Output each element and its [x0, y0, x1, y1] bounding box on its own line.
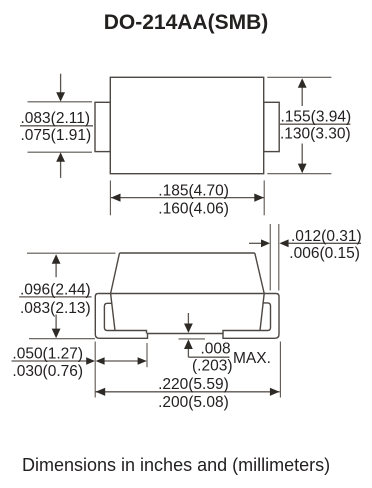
arrowhead left .185 — [111, 194, 121, 202]
svg-text:.030(0.76): .030(0.76) — [12, 363, 83, 380]
lead outer outline left and bottom with center notch — [95, 294, 149, 339]
leader line .050 left (fraction bar) — [12, 360, 87, 362]
arrowhead left .006 leader — [279, 239, 288, 247]
arrowhead right .050 leader — [86, 357, 95, 365]
svg-text:.083(2.13): .083(2.13) — [20, 300, 91, 317]
dimension line .050/.030 — [104, 360, 138, 362]
fraction bar .155/.130 — [279, 123, 351, 125]
svg-text:.220(5.59): .220(5.59) — [158, 376, 229, 393]
extension line lead foot right — [146, 343, 148, 367]
side view body right slant upper — [255, 253, 264, 294]
svg-text:.083(2.11): .083(2.11) — [21, 110, 91, 127]
standoff notch bottom edge — [150, 333, 222, 335]
extension line width right — [263, 180, 265, 215]
svg-text:MAX.: MAX. — [233, 350, 271, 367]
side view body top edge — [120, 252, 255, 254]
side view body left slant upper — [111, 253, 120, 294]
dimension line .130 lower segment — [301, 144, 303, 165]
arrowhead left .220 — [96, 388, 106, 396]
extension line lead thickness outer — [278, 224, 280, 291]
arrowhead right .012 leader — [261, 239, 270, 247]
arrowhead down .008 — [184, 324, 193, 333]
extension line width left — [109, 180, 111, 215]
arrowhead left .050 inside — [96, 357, 105, 365]
dimension line .155 upper segment — [301, 88, 303, 107]
dimension line .185/.160 — [111, 197, 264, 199]
svg-text:.050(1.27): .050(1.27) — [12, 346, 83, 363]
wire stem top arrow .083 — [60, 74, 62, 93]
wire stem .083 arrow — [55, 315, 57, 330]
arrowhead down at tab top — [56, 92, 65, 101]
arrowhead right .050 at foot — [138, 357, 147, 365]
top view left lead tab — [95, 102, 110, 151]
svg-text:Dimensions in inches and (mill: Dimensions in inches and (millimeters) — [22, 455, 330, 475]
lead outer outline right bottom — [221, 294, 279, 339]
wire stem .008 down arrow — [187, 313, 189, 324]
fraction bar .008/(.203) — [188, 356, 229, 358]
arrowhead down .083 body height — [52, 329, 61, 339]
arrowhead up .008 — [184, 339, 193, 349]
svg-text:.155(3.94): .155(3.94) — [281, 108, 352, 125]
side view body right slant lower — [260, 294, 264, 331]
arrowhead right .185 — [254, 194, 264, 202]
leader line .012 left — [249, 242, 262, 244]
extension line body top right — [267, 76, 331, 78]
arrowhead up .155 — [298, 78, 307, 88]
extension line seating plane left — [29, 338, 95, 340]
svg-text:(.203): (.203) — [192, 358, 233, 375]
extension line tab top — [28, 101, 93, 103]
extension line body top left — [27, 252, 116, 254]
top view right lead tab — [264, 102, 280, 151]
svg-text:.185(4.70): .185(4.70) — [158, 182, 229, 199]
lead inner outline right — [223, 303, 271, 334]
fraction bar .083/.075 — [20, 125, 93, 127]
leader line and fraction bar .012/.006 — [289, 242, 361, 244]
svg-text:.008: .008 — [201, 340, 231, 357]
wire stem .008 up arrow — [187, 349, 189, 357]
arrowhead up at tab bottom — [56, 152, 65, 161]
mold parting line / lead band top edge — [98, 293, 276, 295]
svg-text:DO-214AA(SMB): DO-214AA(SMB) — [104, 11, 269, 34]
extension line lead thickness inner — [269, 224, 271, 291]
extension line overall width left — [94, 342, 96, 398]
wire stem .096 arrow — [55, 264, 57, 278]
svg-text:.130(3.30): .130(3.30) — [280, 126, 351, 143]
arrowhead up .096 — [52, 254, 61, 264]
svg-text:.096(2.44): .096(2.44) — [20, 281, 91, 298]
svg-text:.006(0.15): .006(0.15) — [289, 245, 360, 262]
arrowhead right .220 — [270, 388, 280, 396]
svg-text:.075(1.91): .075(1.91) — [21, 127, 92, 144]
dimension line .220/.200 — [96, 391, 280, 393]
top view body outline — [110, 77, 263, 173]
seating plane short line center — [179, 338, 206, 340]
svg-text:.160(4.06): .160(4.06) — [158, 200, 229, 217]
svg-text:.012(0.31): .012(0.31) — [291, 228, 362, 245]
arrowhead down .130 — [298, 164, 307, 174]
extension line overall width right — [279, 342, 281, 398]
fraction bar .096/.083 — [19, 296, 91, 298]
extension line body bottom right — [267, 173, 331, 175]
wire stem bottom arrow .075 — [60, 162, 62, 178]
lead inner outline left — [104, 303, 146, 333]
svg-text:.200(5.08): .200(5.08) — [158, 394, 229, 411]
extension line tab bottom — [28, 151, 93, 153]
side view body left slant lower — [111, 294, 115, 331]
